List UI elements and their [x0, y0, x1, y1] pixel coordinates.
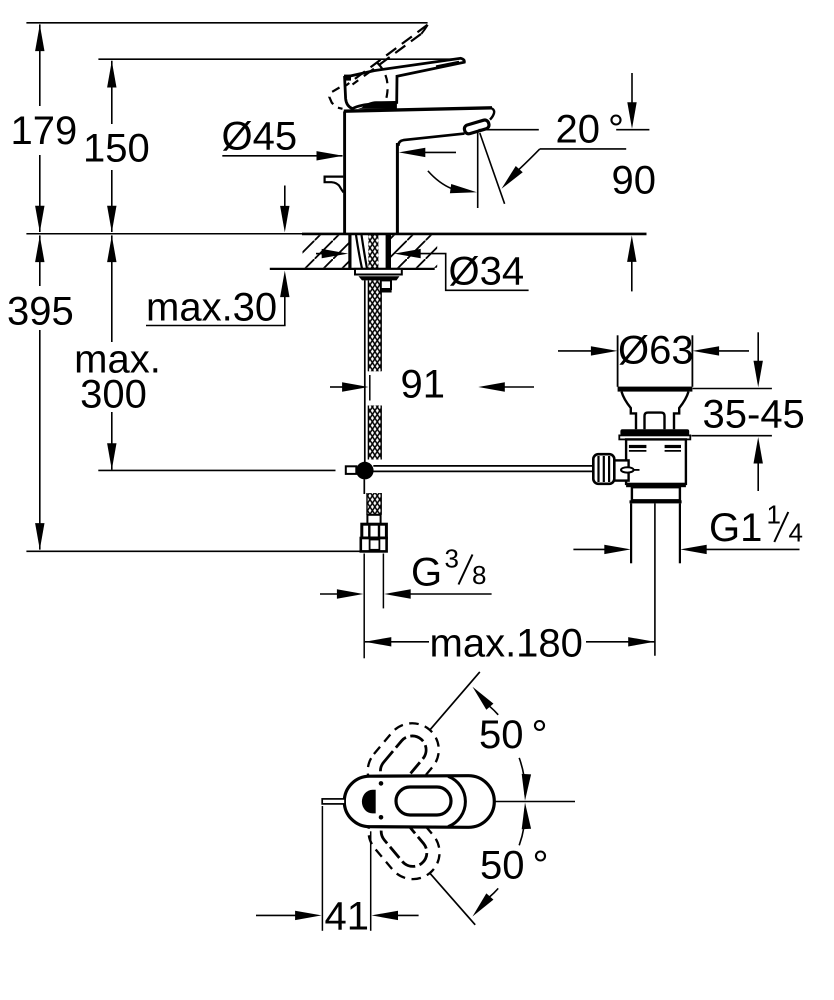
svg-text:max.180: max.180 [430, 622, 583, 666]
drain pivot ball ellipse [621, 467, 634, 472]
faucet deck top line [344, 108, 492, 111]
bottom view centerline right [495, 801, 576, 803]
svg-text:3: 3 [445, 544, 459, 574]
svg-text:8: 8 [472, 560, 486, 590]
dimension 41 extension line left [321, 806, 323, 931]
dimension 179 vertical line [39, 24, 41, 232]
braided hose middle section [369, 406, 381, 460]
svg-text:35-45: 35-45 [703, 393, 805, 437]
dimension Ø34 right arrow and stepped leader to label [419, 254, 529, 291]
dashed handle tip connector [421, 25, 427, 34]
handle lever inner tip line [436, 62, 459, 67]
drain body slot right [665, 445, 681, 448]
svg-text:395: 395 [7, 290, 74, 334]
dimension 395 vertical line [39, 235, 41, 549]
dashed handle open position lever line 1 [346, 25, 428, 86]
max30 down arrow above counter [284, 186, 286, 209]
20 degree label underline [540, 148, 626, 150]
dimension Ø63 right arrow [718, 350, 750, 352]
G3/8 extension line left [363, 554, 365, 659]
hose bend curves inside shank [356, 235, 367, 269]
drain body [626, 439, 686, 484]
handle lever and boss solid outline [345, 58, 465, 108]
drain tailpipe right edge [679, 503, 681, 563]
drain rod boss [614, 460, 628, 480]
drain tailpipe left edge [630, 503, 632, 563]
dimension Ø34 left arrow [316, 253, 323, 255]
dimension 41 extension line right [370, 831, 372, 931]
svg-text:91: 91 [401, 363, 446, 407]
drain funnel left profile [622, 392, 637, 430]
dimension 91 left arrow [330, 386, 344, 388]
shank left edge through counter [348, 235, 351, 269]
hose end fitting collar [367, 515, 380, 524]
braided hose lower section [367, 493, 381, 515]
50deg line lower [430, 874, 475, 925]
dimension 90 bottom arrow [631, 260, 633, 291]
bottom view dot upper [379, 781, 384, 786]
max30 up arrow below counter with leader to label [284, 295, 286, 326]
svg-text:50 °: 50 ° [479, 713, 548, 757]
pop-up rod knob at rear of body [325, 177, 344, 193]
faucet body right edge [396, 143, 399, 233]
dimension G3/8 left arrow [320, 593, 339, 595]
drain flange bottom plate [618, 387, 693, 392]
svg-text:41: 41 [325, 895, 370, 939]
drain knurled adjustment knob [593, 454, 614, 484]
dimension 35-45 up arrow [757, 462, 759, 491]
svg-text:4: 4 [789, 518, 803, 548]
drain body slot left [629, 445, 647, 448]
stream angle arc with arrow [428, 171, 452, 189]
bottom view body outline [344, 776, 494, 828]
dimension G1 1/4 right arrow [705, 548, 800, 550]
dimension Ø45 leader underline and arrow [222, 155, 342, 157]
svg-text:300: 300 [80, 373, 147, 417]
dimension 41 right arrow [396, 914, 418, 916]
svg-text:Ø63: Ø63 [618, 329, 694, 373]
bottom view handle end D shape [362, 790, 376, 814]
svg-text:179: 179 [11, 109, 78, 153]
max30 label underline [146, 325, 286, 327]
20 degree reference line right segment [616, 129, 649, 131]
braided hose through counter [368, 235, 378, 269]
dimension max180 line with outward arrows [365, 641, 429, 643]
dimension 41 left arrow [256, 914, 297, 916]
20 degree reference line left segment [479, 129, 539, 131]
counter hatching left of shank [303, 235, 350, 268]
svg-text:90: 90 [612, 159, 657, 203]
dimension 91 right arrow [503, 386, 534, 388]
handle boss corner cap [344, 75, 351, 81]
spout underside line [398, 134, 464, 146]
drain body step bar [626, 484, 686, 487]
drain nut bottom bar [630, 500, 682, 503]
20 degree label curved leader with arrow [518, 149, 540, 170]
svg-text:150: 150 [83, 127, 150, 171]
svg-text:max.30: max.30 [146, 286, 277, 330]
bottom view dashed spout swung up 50deg [357, 712, 450, 808]
dimension Ø63 left arrow [558, 350, 593, 352]
svg-text:G1: G1 [709, 506, 762, 550]
dimension max300 vertical line [111, 235, 113, 469]
mounting nut trapezoid [359, 276, 400, 280]
drain rubber gasket [620, 429, 689, 435]
35-45 bottom reference line [692, 435, 772, 437]
svg-text:1: 1 [767, 500, 781, 530]
dashed handle boss rotated outline left [329, 88, 342, 109]
dimension G1 1/4 left arrow [573, 548, 606, 550]
drain gasket washer [619, 435, 690, 439]
lower 50deg arc segment and arrows [490, 888, 499, 897]
G3/8 extension line right [382, 554, 384, 609]
braided hose upper section [369, 280, 381, 371]
rod connector left of ball [346, 466, 357, 474]
dimension 35-45 down arrow [757, 332, 759, 362]
water stream 20 degree slanted line [480, 133, 505, 204]
counter bottom line [270, 268, 435, 270]
dashed handle open position lever line 2 [353, 34, 422, 85]
rod guide black bar in shank [386, 235, 391, 269]
pop-up rod horizontal line (max300 reference) [98, 469, 335, 471]
svg-text:Ø45: Ø45 [222, 115, 298, 159]
dimension 90 top arrow [631, 73, 633, 104]
svg-text:Ø34: Ø34 [449, 250, 525, 294]
dimension 150 vertical line [111, 61, 113, 232]
bottom view rear rod stub [322, 799, 345, 804]
upper 50deg arc segment and arrows [490, 706, 499, 715]
hose end hex nut G3/8 [361, 538, 387, 551]
svg-text:50 °: 50 ° [480, 844, 549, 888]
pop-up rod below counter [364, 280, 366, 462]
bottom view body right cap internal arc [448, 776, 465, 826]
bottom view spout slot oval [396, 787, 451, 815]
counter top line [26, 233, 302, 235]
bottom reference line at hose end (395) [26, 550, 362, 552]
aerator outlet capsule [463, 119, 490, 135]
drain flange right side / Ø63 extension [691, 335, 693, 387]
water stream vertical line [477, 131, 479, 209]
50deg line upper [430, 672, 480, 730]
dimension G3/8 right arrow [409, 593, 492, 595]
spout nose tip curve [490, 108, 494, 120]
bottom view dot lower [379, 815, 384, 820]
top reference line (179) [26, 22, 427, 24]
pop-up rod double line to drain [373, 465, 593, 467]
drain compression nut [632, 487, 680, 500]
35-45 top reference line [693, 388, 772, 390]
rod below ball [363, 479, 365, 494]
svg-text:20 °: 20 ° [556, 108, 625, 152]
dimension Ø45 right arrow at body right edge [423, 151, 456, 153]
ball joint of pop-up rod [356, 462, 374, 480]
counter hatching right of shank [391, 235, 437, 268]
svg-text:G: G [411, 551, 442, 595]
drain flange left side / Ø63 extension [617, 335, 619, 387]
91 extension line in hose break [369, 375, 371, 401]
dark gap under handle boss [358, 101, 397, 109]
drain funnel right profile [674, 392, 689, 430]
hose end fitting body [362, 524, 387, 538]
rod guide tube end [381, 280, 391, 289]
spout-height reference line (150) [98, 58, 463, 60]
dashed handle boss rotated outline right [378, 63, 388, 105]
faucet body left edge [343, 111, 346, 233]
mounting flange under counter [355, 269, 402, 275]
drain tailpipe center line / max180 extension [654, 503, 656, 655]
drain center boss [645, 413, 665, 430]
bottom view dashed spout swung down 50deg [358, 794, 451, 890]
